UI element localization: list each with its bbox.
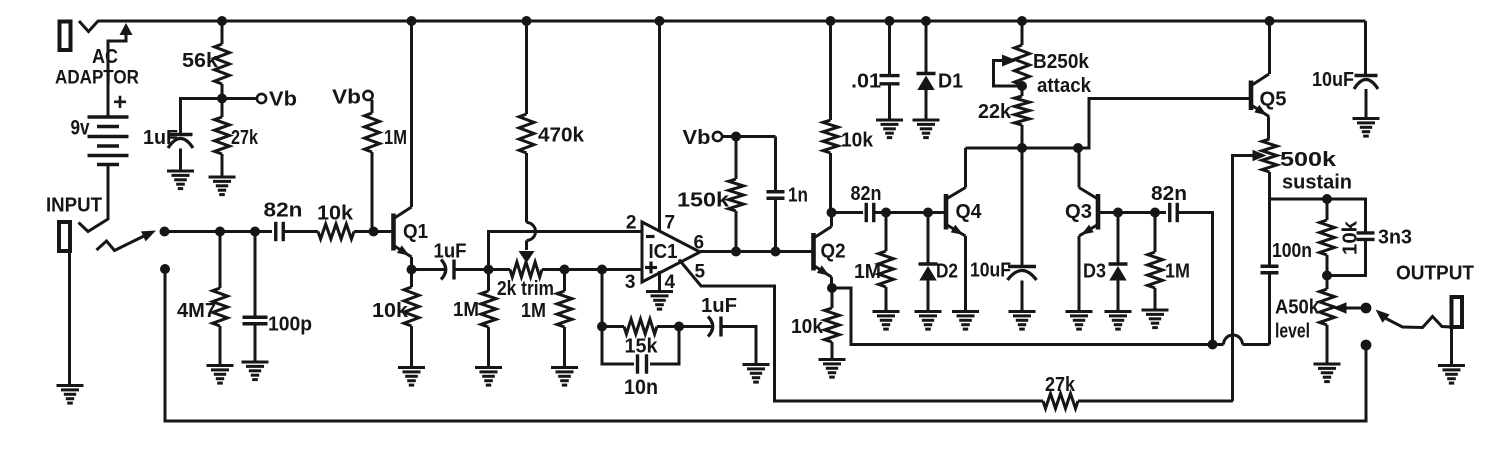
svg-text:10k: 10k	[791, 316, 824, 338]
pin 5 label	[695, 262, 706, 283]
level pot wiper	[1333, 302, 1367, 314]
node mirror rail	[1017, 143, 1027, 153]
svg-text:OUTPUT: OUTPUT	[1396, 263, 1474, 285]
wire 82n right	[1178, 213, 1213, 345]
transistor Q3	[1065, 188, 1098, 237]
svg-text:D2: D2	[936, 261, 958, 283]
node sidechain join	[1208, 340, 1218, 350]
resistor 10k (Q1 emitter)	[372, 270, 419, 368]
ground Q4 emitter	[952, 312, 979, 330]
wire feedback to pin 2	[489, 232, 643, 270]
ground 10uF right	[1353, 119, 1380, 137]
node trim right	[560, 265, 570, 275]
node rail Q1 collector	[407, 16, 417, 26]
wire D3 bottom	[1117, 281, 1120, 312]
capacitor 82n (Q2-Q4)	[851, 183, 882, 222]
node op-amp feedback	[484, 265, 494, 275]
wire Q1 collector	[410, 21, 413, 207]
svg-text:1uF: 1uF	[434, 241, 467, 263]
ground 100p	[242, 362, 269, 380]
svg-text:Q5: Q5	[1260, 89, 1287, 111]
svg-text:150k: 150k	[677, 190, 730, 212]
svg-text:2: 2	[626, 213, 637, 234]
node Q2 emitter	[827, 283, 837, 293]
Vb terminal (op-amp)	[683, 127, 723, 149]
resistor 10k (output)	[1320, 199, 1362, 276]
svg-text:.01: .01	[851, 71, 881, 93]
svg-text:27k: 27k	[231, 127, 259, 149]
resistor 10k (Q2 emitter)	[791, 288, 840, 360]
node 1n bottom	[771, 247, 781, 257]
transistor Q1	[394, 207, 429, 257]
wire hop over sustain wiper	[1204, 335, 1270, 345]
svg-text:1M: 1M	[453, 299, 479, 321]
node rail attack	[1017, 16, 1027, 26]
svg-text:10k: 10k	[1340, 220, 1362, 255]
op-amp IC1	[642, 222, 700, 282]
ground Q1 10k	[398, 368, 425, 386]
capacitor 10n	[624, 354, 658, 399]
wire Vb row	[722, 135, 776, 138]
svg-text:Vb: Vb	[683, 127, 711, 149]
svg-text:ADAPTOR: ADAPTOR	[55, 68, 139, 89]
wire Q5 emitter	[1267, 117, 1270, 140]
wire 15k to 1uF	[679, 325, 712, 328]
node rail D1	[921, 16, 931, 26]
svg-text:sustain: sustain	[1282, 172, 1352, 194]
resistor 1M (pin3 node)	[521, 270, 572, 368]
wire 1uF to ground	[179, 149, 182, 172]
ground IC1 pin 4	[646, 292, 673, 310]
node rail 56k	[217, 16, 227, 26]
capacitor 82n (input)	[264, 200, 303, 242]
wire 100p bottom	[254, 324, 257, 362]
wire Q5 collector	[1268, 21, 1271, 74]
svg-text:82n: 82n	[1151, 183, 1187, 205]
svg-text:D1: D1	[938, 71, 963, 93]
svg-text:A50k: A50k	[1275, 297, 1320, 319]
svg-text:Q1: Q1	[403, 221, 428, 243]
wire .01 bottom	[888, 84, 891, 120]
svg-text:1M: 1M	[854, 261, 881, 283]
node 150k top	[731, 132, 741, 142]
wire 3n3 bottom	[1327, 240, 1366, 276]
svg-text:level: level	[1275, 321, 1310, 343]
node 100p	[250, 227, 260, 237]
resistor 1M (Q4 base)	[854, 213, 894, 312]
wire D2 top	[927, 213, 930, 263]
potentiometer 500k sustain	[1262, 139, 1352, 199]
ground 1uF Vb	[167, 171, 194, 189]
svg-text:10k: 10k	[841, 130, 874, 152]
potentiometer A50k level	[1275, 276, 1335, 365]
capacitor 3n3	[1357, 227, 1413, 249]
resistor 10k (Q2 collector)	[823, 21, 874, 213]
wire output jack to ground	[1450, 327, 1453, 366]
node D3 base	[1113, 208, 1123, 218]
output jack	[1396, 263, 1474, 328]
svg-text:10n: 10n	[624, 376, 658, 399]
node 15k left	[597, 322, 607, 332]
node rail Q5	[1265, 16, 1275, 26]
wire battery to input jack tip	[79, 165, 109, 232]
ground 1M Q3	[1142, 310, 1169, 328]
svg-text:3: 3	[625, 272, 636, 293]
ground output jack	[1438, 366, 1465, 384]
svg-text:470k: 470k	[538, 125, 585, 147]
node pin3 branch	[597, 265, 607, 275]
node 4M7	[215, 227, 225, 237]
resistor 1M (feedback node)	[453, 270, 496, 368]
node Vb divider	[217, 94, 227, 104]
wire Q2 to 82n	[832, 211, 864, 214]
AC adaptor jack	[55, 21, 139, 89]
wire input jack sleeve to ground	[68, 251, 71, 385]
node rail 470k	[522, 16, 532, 26]
node Q3 collector join	[1073, 143, 1083, 153]
node rail 10k Q2	[826, 16, 836, 26]
svg-text:1uF: 1uF	[143, 127, 178, 149]
wire 100n bottom	[1268, 273, 1271, 345]
input jack	[46, 195, 102, 252]
capacitor 1uF (sidechain)	[701, 295, 737, 337]
svg-text:100n: 100n	[1272, 240, 1312, 262]
wire sustain top row	[1270, 199, 1366, 232]
capacitor 10uF (mirror)	[970, 260, 1037, 282]
battery 9v	[71, 89, 129, 165]
wire Q2 emitter feed	[832, 288, 1204, 345]
wire 1n top	[774, 137, 777, 192]
svg-text:15k: 15k	[625, 336, 659, 358]
svg-text:Q2: Q2	[821, 241, 846, 263]
svg-text:INPUT: INPUT	[46, 195, 102, 217]
transistor Q5	[1251, 74, 1287, 117]
wire 10uF mid bottom	[1021, 281, 1024, 312]
node input signal	[160, 227, 170, 237]
trimpot 2k trim	[489, 262, 565, 300]
node rail pin7	[655, 16, 665, 26]
node Q1 emitter	[407, 265, 417, 275]
Vb terminal (Q1 bias)	[332, 87, 373, 109]
capacitor .01	[851, 71, 900, 93]
ground level pot	[1314, 364, 1341, 382]
wire top supply rail	[98, 20, 1366, 23]
wire 1uF to ground 2	[721, 327, 756, 365]
Vb terminal (divider)	[222, 89, 297, 111]
potentiometer B250k attack	[1015, 21, 1092, 97]
wire 1n bottom	[774, 199, 777, 252]
ground 1M feedback	[475, 368, 502, 386]
ground sidechain 1uF	[743, 365, 770, 383]
wire pin 5 to bottom	[679, 260, 1041, 402]
node input bypass throw	[160, 264, 170, 274]
resistor 470k	[519, 21, 585, 223]
svg-text:4: 4	[665, 272, 676, 293]
node 1M Q3	[1150, 208, 1160, 218]
input bypass switch arrow	[97, 231, 157, 251]
wire D1 bottom	[925, 90, 928, 120]
svg-text:82n: 82n	[851, 183, 882, 205]
ground input jack	[57, 386, 84, 404]
svg-text:1uF: 1uF	[701, 295, 737, 317]
resistor 22k	[978, 86, 1030, 148]
capacitor 10uF (supply)	[1312, 69, 1378, 91]
svg-text:attack: attack	[1037, 75, 1092, 97]
wire Q2 emitter	[830, 277, 833, 288]
svg-text:AC: AC	[92, 46, 118, 68]
svg-text:D3: D3	[1083, 261, 1106, 283]
node 10k top	[1322, 194, 1332, 204]
resistor 56k	[182, 21, 230, 99]
capacitor 82n (Q3)	[1151, 183, 1187, 222]
wire 82n to 10k	[284, 230, 318, 233]
wire pin 6 output	[700, 250, 814, 253]
wire Q2 collector	[830, 213, 833, 227]
svg-text:Q3: Q3	[1065, 201, 1092, 223]
ground 1M Q4	[873, 312, 900, 330]
node 10k bottom	[1322, 271, 1332, 281]
output bypass switch arrow	[1376, 310, 1452, 328]
svg-text:82n: 82n	[264, 200, 303, 222]
node output bypass throw	[1361, 340, 1372, 351]
sustain pot wiper	[1233, 150, 1267, 401]
ground D1	[913, 120, 940, 138]
wire mirror row	[966, 99, 1252, 149]
wire Q1 emitter to 1uF	[412, 268, 446, 271]
svg-text:B250k: B250k	[1033, 51, 1090, 73]
svg-text:500k: 500k	[1280, 149, 1337, 171]
svg-text:IC1: IC1	[649, 241, 678, 263]
node 150k bottom	[731, 247, 741, 257]
node D2 Q4 base	[923, 208, 933, 218]
wire rail to 10uF	[1364, 21, 1367, 74]
trimpot wiper arrow	[519, 241, 535, 264]
resistor 10k (Q1 base)	[317, 203, 393, 240]
svg-text:22k: 22k	[978, 101, 1012, 123]
wire 82n to Q4 base	[874, 211, 947, 214]
wire 1uF to node	[454, 268, 489, 271]
resistor 27k	[215, 99, 259, 178]
capacitor 1uF (Q1 coupling)	[434, 241, 467, 280]
node output switch	[1361, 303, 1372, 314]
diode D1	[917, 71, 964, 93]
battery switch arrow	[108, 23, 133, 116]
wire 10uF mid top	[1021, 148, 1024, 265]
attack pot wiper	[994, 55, 1023, 87]
resistor 1M (Q3 base)	[1148, 213, 1191, 311]
svg-text:10uF: 10uF	[1312, 69, 1354, 91]
resistor 1M (Q1 bias)	[365, 100, 408, 232]
wire D3 top	[1117, 213, 1120, 263]
pin 4	[660, 271, 676, 293]
wire 10uF right bottom	[1365, 89, 1368, 119]
wire 100p top	[254, 232, 257, 317]
svg-text:4M7: 4M7	[177, 300, 216, 322]
wire 27k to sustain wiper	[1078, 400, 1233, 403]
resistor 4M7	[177, 232, 228, 366]
svg-text:Vb: Vb	[269, 89, 297, 111]
svg-text:1M: 1M	[384, 127, 407, 149]
capacitor 100n	[1261, 240, 1313, 273]
diode D3	[1083, 261, 1128, 283]
svg-text:27k: 27k	[1045, 374, 1076, 396]
resistor 15k	[602, 319, 679, 358]
ground D3	[1105, 312, 1132, 330]
pin 2 label	[626, 213, 637, 234]
wire sustain to 100n	[1268, 199, 1271, 265]
ground 10uF mid	[1009, 312, 1036, 330]
ground 27k	[209, 177, 236, 195]
wire Q3 collector	[1078, 148, 1081, 188]
capacitor 1uF (Vb filter)	[143, 127, 193, 149]
svg-text:10k: 10k	[317, 203, 354, 225]
svg-text:Q4: Q4	[956, 201, 983, 223]
transistor Q4	[946, 188, 982, 237]
svg-text:3n3: 3n3	[1378, 227, 1412, 249]
wire .01 top	[888, 21, 891, 74]
svg-text:7: 7	[665, 213, 676, 234]
node Q2 collector	[827, 208, 837, 218]
resistor 27k (feedback)	[1041, 374, 1233, 409]
pin 3 label	[625, 272, 636, 293]
svg-text:1M: 1M	[1165, 261, 1190, 283]
svg-text:Vb: Vb	[332, 87, 361, 109]
node 1M Q4	[881, 208, 891, 218]
pin 7	[660, 21, 676, 234]
ground Q3 emitter	[1066, 312, 1093, 330]
svg-text:1M: 1M	[521, 300, 546, 322]
wire to pin 3	[565, 268, 643, 271]
wire hop 470k over pin2 wire	[527, 223, 536, 241]
node 15k right	[674, 322, 684, 332]
wire input row	[165, 230, 273, 233]
wire D2 bottom	[927, 281, 930, 312]
node rail .01	[885, 16, 895, 26]
svg-text:2k trim: 2k trim	[497, 278, 554, 300]
wire Q3 base row	[1098, 211, 1166, 214]
svg-text:1n: 1n	[788, 185, 808, 207]
wire pin3 node down	[601, 270, 604, 327]
svg-text:56k: 56k	[182, 50, 219, 72]
wire Q4 emitter	[964, 236, 967, 312]
svg-text:100p: 100p	[268, 314, 312, 336]
ground 4M7	[207, 366, 234, 384]
wire Vb to 1uF	[181, 99, 223, 134]
wire 10n loop	[602, 327, 679, 365]
svg-text:10uF: 10uF	[970, 260, 1011, 282]
ground .01	[876, 120, 903, 138]
node attack wiper	[1017, 81, 1027, 91]
transistor Q2	[814, 227, 846, 278]
wire Q1 emitter	[410, 257, 413, 270]
ground 1M mid	[551, 368, 578, 386]
svg-text:10k: 10k	[372, 300, 409, 322]
capacitor 1n	[767, 185, 809, 207]
wire Q4 collector	[964, 148, 967, 188]
svg-text:+: +	[113, 89, 127, 116]
capacitor 100p	[243, 314, 313, 336]
diode D2	[919, 261, 959, 283]
wire Q3 emitter	[1078, 236, 1081, 312]
wire D1 top	[925, 21, 928, 72]
ground D2	[915, 312, 942, 330]
svg-text:9v: 9v	[71, 117, 90, 140]
ground Q2 10k	[819, 360, 846, 378]
resistor 150k	[677, 137, 744, 252]
wire bypass bottom rail	[165, 269, 1366, 421]
pin 6 label	[694, 233, 705, 254]
node Q1 base	[369, 227, 379, 237]
